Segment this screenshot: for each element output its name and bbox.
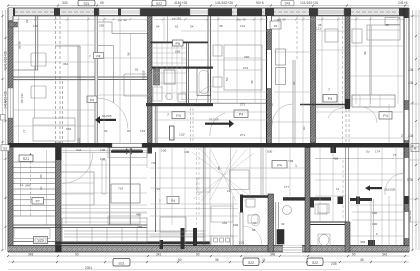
svg-text:3u4: 3u4 xyxy=(76,148,81,152)
svg-text:48: 48 xyxy=(360,258,364,262)
svg-text:132°: 132° xyxy=(179,133,186,137)
svg-text:P4: P4 xyxy=(383,114,387,118)
svg-text:475: 475 xyxy=(137,225,142,229)
wall: bottom outer wall (dense hatch) xyxy=(8,246,409,253)
svg-text:719: 719 xyxy=(118,187,123,191)
dining: table with chairs (light) xyxy=(102,148,254,202)
svg-text:121/162+26: 121/162+26 xyxy=(300,1,318,5)
partition: top-left WC wall xyxy=(13,16,38,70)
wall: right outer wall xyxy=(404,8,409,252)
closet strip under it xyxy=(13,229,210,245)
svg-text:1: 1 xyxy=(295,164,297,168)
svg-text:90+6: 90+6 xyxy=(256,1,264,5)
kitchen verticals x147-150 xyxy=(110,148,156,233)
partition x78-80 left rooms xyxy=(35,46,81,143)
svg-text:272: 272 xyxy=(243,66,248,70)
svg-text:91/205: 91/205 xyxy=(312,70,316,80)
svg-text:S21: S21 xyxy=(83,2,89,6)
svg-text:90: 90 xyxy=(352,252,356,256)
wall: interior horizontal wall y103-107 left span xyxy=(146,100,268,107)
svg-text:P4: P4 xyxy=(96,54,100,58)
svg-text:P4: P4 xyxy=(176,114,180,118)
door arcs xyxy=(62,108,403,195)
svg-text:36: 36 xyxy=(127,52,131,56)
annotation 161/205 xyxy=(365,185,395,191)
svg-text:P4: P4 xyxy=(171,199,175,203)
bottom right room thin verticals xyxy=(352,199,404,245)
svg-text:b: b xyxy=(376,232,378,236)
svg-text:96: 96 xyxy=(252,228,256,232)
svg-text:5u: 5u xyxy=(366,150,370,154)
svg-text:121: 121 xyxy=(316,27,321,31)
svg-text:54: 54 xyxy=(156,25,160,29)
svg-text:P5: P5 xyxy=(175,42,179,46)
right margin extension lines xyxy=(409,16,419,222)
svg-text:11: 11 xyxy=(20,183,23,187)
chain ticks y19.5 xyxy=(17,18,400,21)
partition x178-181 xyxy=(187,43,189,103)
svg-text:2391: 2391 xyxy=(85,266,92,270)
svg-text:174: 174 xyxy=(375,150,380,154)
svg-text:90: 90 xyxy=(127,129,131,133)
svg-text:P4: P4 xyxy=(328,97,332,101)
svg-text:21: 21 xyxy=(25,19,29,23)
svg-text:21: 21 xyxy=(227,189,231,193)
wall: thick vertical x149-154 xyxy=(148,16,153,143)
furniture: top right room xyxy=(325,18,400,108)
wall: thick vertical x345-350 xyxy=(345,16,350,107)
svg-text:364: 364 xyxy=(63,62,68,66)
wall: dark lintel segments in top wall xyxy=(8,8,409,16)
svg-text:pa 161: pa 161 xyxy=(172,17,182,21)
svg-text:434: 434 xyxy=(408,81,414,85)
window: top wall windows xyxy=(99,9,344,16)
svg-text:61: 61 xyxy=(175,25,179,29)
svg-text:225: 225 xyxy=(239,241,244,245)
svg-text:41: 41 xyxy=(262,258,266,262)
svg-text:S22: S22 xyxy=(248,261,254,265)
corridor door panel xyxy=(170,126,175,140)
wall: interior horizontal y79-81 left rooms xyxy=(13,77,148,80)
wall: thick vertical x310.5-315.5 xyxy=(311,16,316,143)
right texts xyxy=(401,68,414,222)
svg-text:4181+26: 4181+26 xyxy=(174,1,187,5)
left small box xyxy=(1,145,10,151)
svg-text:94: 94 xyxy=(104,129,108,133)
furniture: top-left squares xyxy=(31,53,152,98)
svg-text:241/162: 241/162 xyxy=(408,210,412,222)
svg-text:348: 348 xyxy=(270,252,276,256)
svg-text:340: 340 xyxy=(25,184,30,188)
wall: interior horizontal y104.5 right span xyxy=(300,104,345,106)
svg-text:45: 45 xyxy=(250,80,254,84)
svg-text:402: 402 xyxy=(360,240,365,244)
furniture: center bed xyxy=(213,45,262,90)
door gap in bottom wall xyxy=(283,245,302,252)
label box S29 xyxy=(34,237,48,244)
svg-text:161: 161 xyxy=(140,129,145,133)
svg-text:141/162+26: 141/162+26 xyxy=(215,1,233,5)
bathroom bottom-center walls xyxy=(240,194,372,252)
svg-text:343: 343 xyxy=(62,1,68,5)
wall: main middle wall band xyxy=(8,143,409,148)
wall: thick vertical x268-274 xyxy=(267,16,272,143)
svg-text:7: 7 xyxy=(89,55,91,59)
svg-text:2: 2 xyxy=(401,134,403,138)
svg-text:per 40: per 40 xyxy=(118,18,127,22)
lines under mid wall left xyxy=(62,150,147,152)
svg-text:161/205: 161/205 xyxy=(384,188,395,192)
svg-text:719: 719 xyxy=(155,187,160,191)
svg-text:798: 798 xyxy=(288,159,293,163)
stove bottom center-left xyxy=(211,236,233,246)
svg-text:169: 169 xyxy=(175,50,180,54)
svg-text:190: 190 xyxy=(372,222,377,226)
svg-text:90: 90 xyxy=(178,258,182,262)
extra fixtures bottom right xyxy=(211,204,329,223)
svg-text:141: 141 xyxy=(240,24,245,28)
closet dividers bottom strip xyxy=(62,228,137,241)
svg-text:P4: P4 xyxy=(90,98,94,102)
svg-text:352: 352 xyxy=(66,127,71,131)
corridor dashed shaft lines xyxy=(191,104,194,143)
bottom right bath x310-345 xyxy=(310,196,389,249)
wall: top outer wall band xyxy=(8,8,409,16)
extra thin lines bottom strip xyxy=(8,209,340,270)
wall: left outer wall xyxy=(8,8,13,252)
extra dashed vertical xyxy=(62,81,64,143)
top middle room dividers and tiled bath floor xyxy=(150,16,208,43)
wall: bottom-left vertical x55-61 xyxy=(56,143,62,252)
wall: vertical x345-350 bottom xyxy=(345,148,350,253)
svg-text:271: 271 xyxy=(268,103,273,107)
svg-text:40: 40 xyxy=(292,81,296,85)
svg-text:34: 34 xyxy=(281,222,285,226)
dashed shaft x343-348 upper bottom half xyxy=(342,160,344,220)
svg-text:96 140: 96 140 xyxy=(20,93,24,103)
svg-text:177: 177 xyxy=(284,185,289,189)
svg-text:90: 90 xyxy=(75,252,79,256)
svg-text:36: 36 xyxy=(363,51,367,55)
svg-text:49: 49 xyxy=(274,24,278,28)
svg-text:271: 271 xyxy=(240,133,245,137)
svg-text:90: 90 xyxy=(100,1,104,5)
svg-text:241+6: 241+6 xyxy=(398,1,408,5)
shaft: dashed vertical pair x55-60 xyxy=(56,16,61,143)
thin interior grid lines (light) xyxy=(13,16,404,245)
bottom text row xyxy=(113,258,337,266)
left margin tiny box xyxy=(1,115,6,121)
svg-text:7: 7 xyxy=(328,88,330,92)
svg-text:190: 190 xyxy=(372,211,377,215)
svg-text:91/205: 91/205 xyxy=(102,114,112,118)
thin vertical x230 bottom xyxy=(230,148,232,246)
svg-text:S2: S2 xyxy=(3,147,7,151)
kitchen counter top dark xyxy=(108,148,147,158)
partition x210-212.5 xyxy=(208,16,211,103)
corridor left wall below bath xyxy=(155,105,157,143)
svg-text:106: 106 xyxy=(100,148,105,152)
scattered dim texts xyxy=(18,17,389,164)
svg-text:271: 271 xyxy=(240,103,245,107)
svg-text:7: 7 xyxy=(167,113,169,117)
top-center room niches xyxy=(98,22,148,103)
svg-text:54: 54 xyxy=(225,77,229,81)
svg-text:P4: P4 xyxy=(277,163,281,167)
big furniture rect left lower room xyxy=(33,118,75,141)
thin vertical x297 dashed xyxy=(296,16,298,60)
svg-text:500: 500 xyxy=(267,150,272,154)
svg-text:141/162+26: 141/162+26 xyxy=(4,51,8,69)
svg-text:91/205: 91/205 xyxy=(209,118,219,122)
svg-text:S76: S76 xyxy=(407,178,413,182)
svg-text:202: 202 xyxy=(233,223,238,227)
svg-text:S22: S22 xyxy=(156,2,162,6)
door leaf: open door dark bar under mid wall xyxy=(111,150,143,153)
svg-text:341: 341 xyxy=(382,252,388,256)
svg-text:36: 36 xyxy=(318,23,322,27)
svg-text:36: 36 xyxy=(215,258,219,262)
bottom dim row ticks and texts xyxy=(12,261,406,263)
corridor door arcs extra xyxy=(97,87,377,130)
svg-text:P7: P7 xyxy=(36,200,40,204)
svg-text:S21: S21 xyxy=(118,261,124,265)
svg-text:100: 100 xyxy=(161,149,166,153)
svg-text:710: 710 xyxy=(151,161,156,165)
svg-text:20: 20 xyxy=(39,174,43,178)
svg-text:90: 90 xyxy=(196,252,200,256)
svg-text:210: 210 xyxy=(77,138,81,143)
svg-text:235: 235 xyxy=(331,262,337,266)
wall: vertical x305-310 bottom xyxy=(305,148,310,253)
svg-text:295: 295 xyxy=(99,24,104,28)
svg-text:260: 260 xyxy=(244,55,249,59)
svg-text:130: 130 xyxy=(33,24,38,28)
svg-text:60: 60 xyxy=(302,126,306,130)
kitchen table xyxy=(111,184,140,203)
svg-text:S22: S22 xyxy=(312,261,318,265)
dimension chain lines inside rooms xyxy=(13,16,409,245)
svg-text:434: 434 xyxy=(408,134,414,138)
dashed vertical x342.5 xyxy=(342,16,344,143)
top text row xyxy=(62,0,408,6)
svg-text:91/205: 91/205 xyxy=(142,70,146,80)
svg-text:11: 11 xyxy=(336,187,339,191)
hall wardrobe xyxy=(61,172,94,205)
furniture: room x274-310 xyxy=(276,49,286,85)
svg-text:434: 434 xyxy=(408,68,414,72)
svg-text:48: 48 xyxy=(385,23,389,27)
svg-text:77: 77 xyxy=(23,129,27,133)
left rotated texts xyxy=(4,51,8,109)
svg-text:91: 91 xyxy=(135,68,139,72)
svg-text:106: 106 xyxy=(100,157,105,161)
room label boxes P4/P5 xyxy=(19,40,392,168)
partition x95-98 xyxy=(95,16,97,143)
bathroom block center xyxy=(152,67,213,103)
svg-text:343: 343 xyxy=(28,252,34,256)
svg-text:S29: S29 xyxy=(37,239,43,243)
svg-text:S21: S21 xyxy=(23,157,29,161)
svg-text:341: 341 xyxy=(156,252,162,256)
stairs bottom-left xyxy=(13,150,55,225)
svg-text:20: 20 xyxy=(39,186,43,190)
svg-text:468: 468 xyxy=(333,157,338,161)
svg-text:54: 54 xyxy=(190,25,194,29)
svg-text:48: 48 xyxy=(219,24,223,28)
svg-text:252: 252 xyxy=(222,221,227,225)
svg-text:S41: S41 xyxy=(284,2,290,6)
wall: interior horizontal y225-227.5 xyxy=(13,225,147,228)
svg-text:141/162+26: 141/162+26 xyxy=(4,91,8,109)
svg-text:P4: P4 xyxy=(239,113,243,117)
